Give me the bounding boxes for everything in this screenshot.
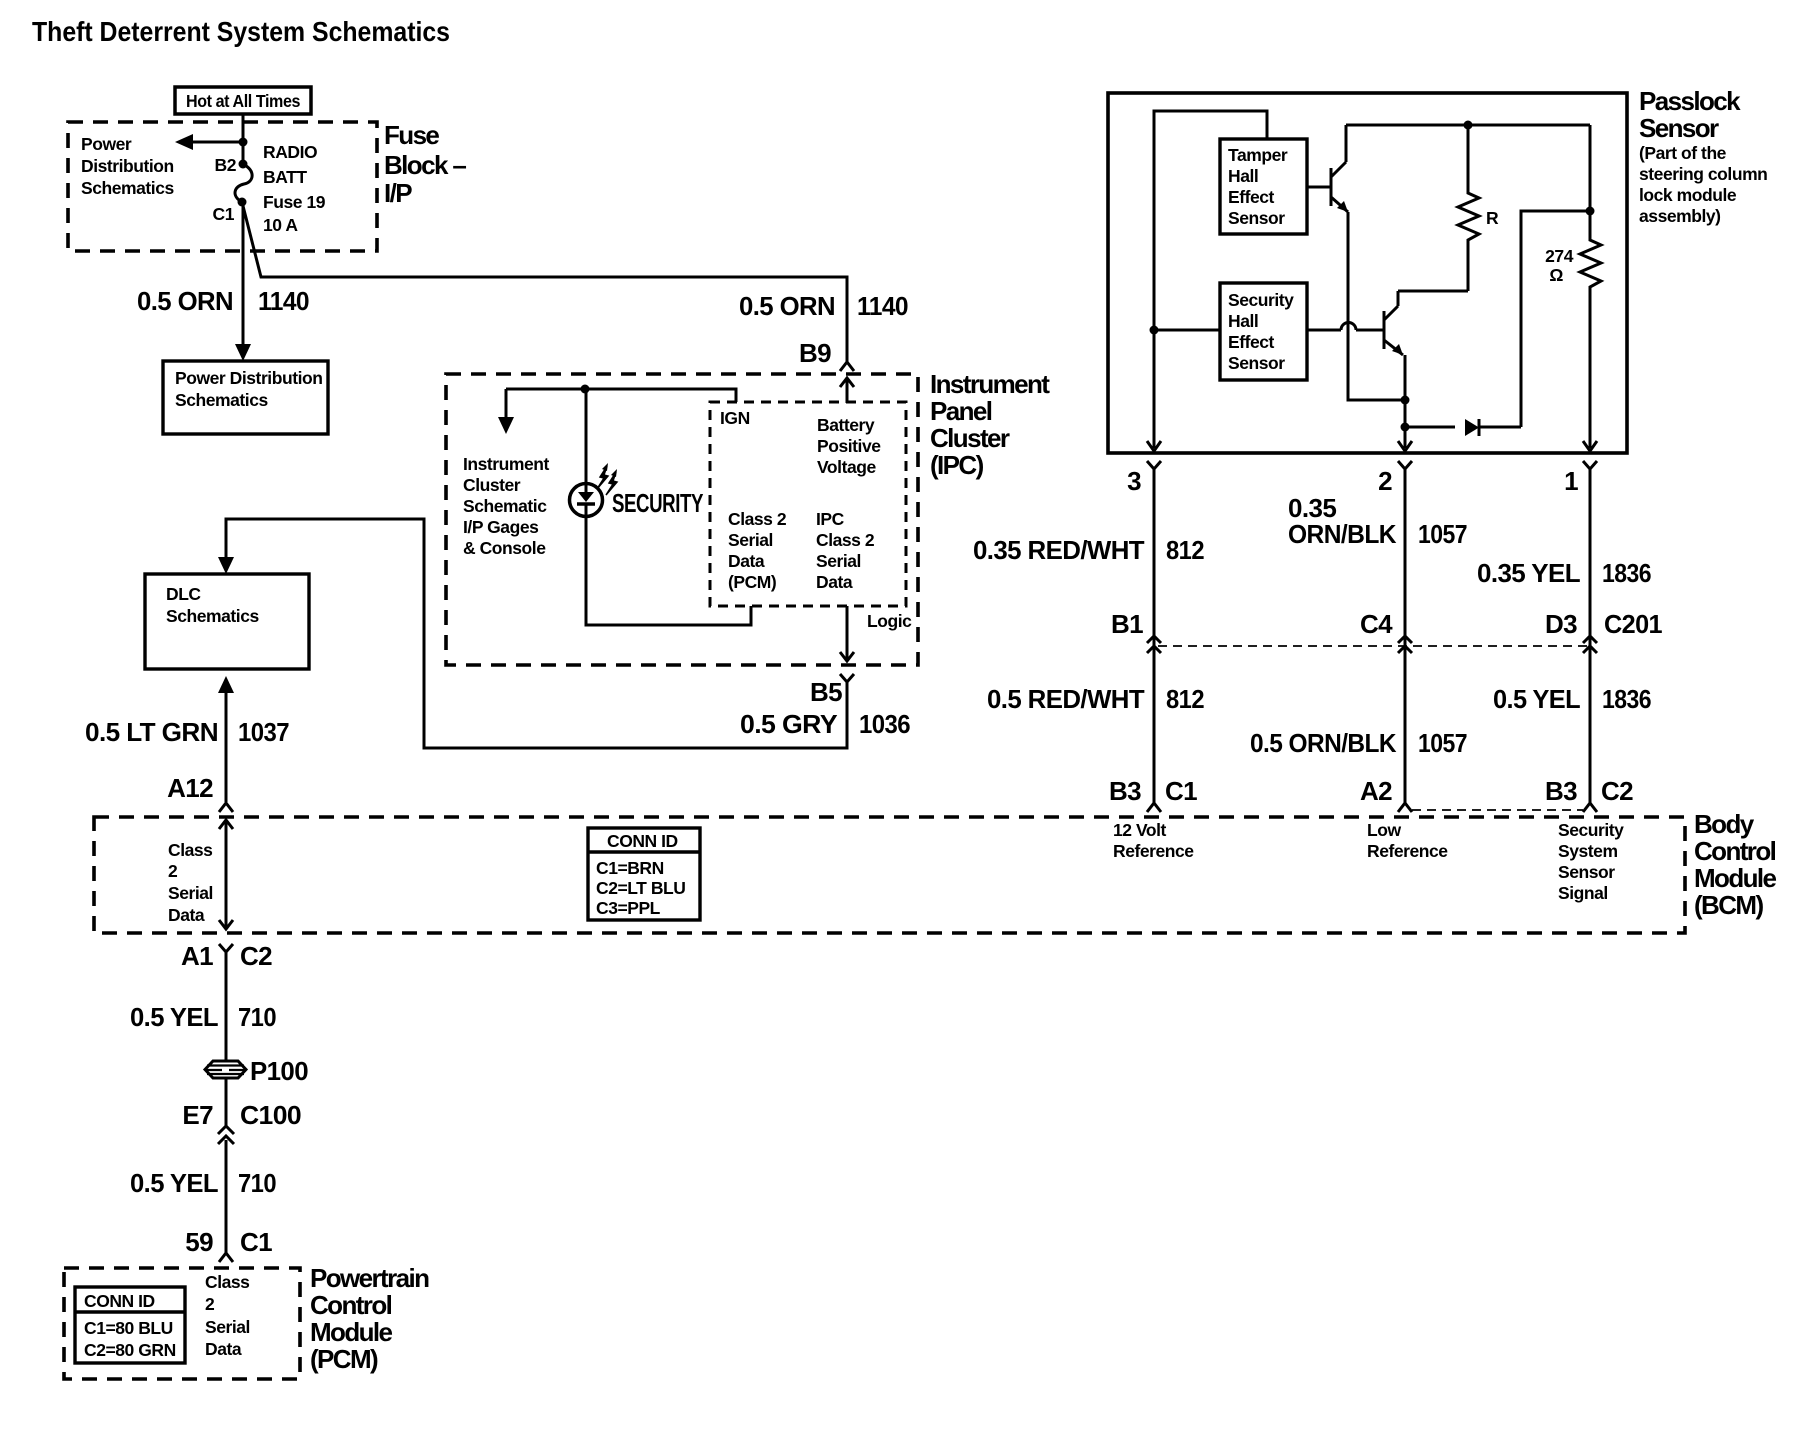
wire label 0.5 ORN 1140 (right) xyxy=(739,291,908,321)
svg-text:0.5 YEL: 0.5 YEL xyxy=(1493,684,1581,714)
svg-text:Serial: Serial xyxy=(168,883,213,903)
svg-text:Data: Data xyxy=(205,1339,242,1359)
fuse block dashed box xyxy=(68,122,377,251)
security indicator lamp xyxy=(570,463,618,517)
12 Volt Reference label xyxy=(1113,820,1194,861)
svg-text:1057: 1057 xyxy=(1418,519,1467,549)
diode D1 xyxy=(1405,419,1521,436)
svg-text:I/P: I/P xyxy=(384,178,412,208)
wire C1 down to Power Distribution box xyxy=(235,202,251,361)
Powertrain Control Module dashed box xyxy=(64,1268,300,1379)
wire from security lamp to logic box xyxy=(586,516,751,625)
svg-text:C1=BRN: C1=BRN xyxy=(596,858,664,878)
svg-text:Control: Control xyxy=(310,1290,392,1320)
connector C201 chevrons pin C4 xyxy=(1398,636,1412,653)
svg-text:Sensor: Sensor xyxy=(1228,208,1285,228)
svg-text:C1: C1 xyxy=(1165,776,1197,806)
svg-text:2: 2 xyxy=(1378,466,1392,496)
node junction emitter join xyxy=(1401,396,1410,405)
svg-text:1037: 1037 xyxy=(238,717,289,747)
wire B5 to DLC xyxy=(218,519,847,748)
connector B9 xyxy=(799,338,854,371)
svg-text:DLC: DLC xyxy=(166,584,201,604)
svg-text:(PCM): (PCM) xyxy=(728,572,776,592)
connector A12 xyxy=(167,773,233,812)
wire label 0.5 RED/WHT 812 xyxy=(987,684,1204,714)
resistor 274 ohm xyxy=(1545,211,1601,448)
BCM pin A2 connector xyxy=(1360,776,1412,812)
svg-text:1: 1 xyxy=(1564,466,1578,496)
svg-text:Sensor: Sensor xyxy=(1558,862,1615,882)
svg-text:R: R xyxy=(1486,208,1499,228)
arrow pin1 at box bottom xyxy=(1583,441,1597,451)
svg-text:274: 274 xyxy=(1545,246,1574,266)
svg-text:Control: Control xyxy=(1694,836,1776,866)
svg-text:& Console: & Console xyxy=(463,538,546,558)
svg-text:Power Distribution: Power Distribution xyxy=(175,368,322,388)
wire Q1 collector up to top rail xyxy=(1345,125,1348,162)
arrow up inside IPC at B9 xyxy=(840,378,854,403)
wire Q2 emitter down pin2 xyxy=(1404,355,1407,448)
svg-text:Schematics: Schematics xyxy=(175,390,268,410)
svg-text:Tamper: Tamper xyxy=(1228,145,1288,165)
svg-text:Block –: Block – xyxy=(384,150,466,180)
svg-text:0.5 YEL: 0.5 YEL xyxy=(130,1002,219,1032)
svg-text:Positive: Positive xyxy=(817,436,881,456)
svg-text:0.5 LT GRN: 0.5 LT GRN xyxy=(85,717,218,747)
pin 3 connector xyxy=(1127,461,1161,496)
BCM connector C2 dashed link xyxy=(1412,809,1583,811)
Passlock Sensor label xyxy=(1639,86,1767,226)
svg-text:0.5 RED/WHT: 0.5 RED/WHT xyxy=(987,684,1145,714)
svg-text:(PCM): (PCM) xyxy=(310,1344,378,1374)
wire label 0.5 ORN 1140 (left) xyxy=(137,286,309,316)
svg-text:Serial: Serial xyxy=(728,530,773,550)
BCM pin A1/C2 connector xyxy=(181,941,272,971)
svg-text:ORN/BLK: ORN/BLK xyxy=(1288,519,1397,549)
IPC Class 2 Serial Data label xyxy=(816,509,875,592)
Body Control Module dashed box xyxy=(94,817,1685,933)
svg-text:1836: 1836 xyxy=(1602,684,1651,714)
BCM pin B3/C2 connector xyxy=(1545,776,1633,812)
svg-text:0.5 YEL: 0.5 YEL xyxy=(130,1168,219,1198)
svg-text:Theft Deterrent System Schemat: Theft Deterrent System Schematics xyxy=(32,16,450,47)
svg-text:Security: Security xyxy=(1228,290,1294,310)
wire label 0.5 YEL 1836 xyxy=(1493,684,1651,714)
svg-text:BATT: BATT xyxy=(263,167,307,187)
wire label 0.5 LT GRN 1037 xyxy=(85,717,289,747)
svg-text:Data: Data xyxy=(168,905,205,925)
svg-text:1036: 1036 xyxy=(859,709,910,739)
pin 2 connector xyxy=(1378,461,1412,496)
svg-text:B2: B2 xyxy=(215,155,237,175)
Power Distribution Schematics box xyxy=(163,361,328,434)
svg-text:Fuse 19: Fuse 19 xyxy=(263,192,326,212)
svg-text:Body: Body xyxy=(1694,809,1755,839)
transistor Q1 tamper xyxy=(1307,162,1348,212)
svg-text:C3=PPL: C3=PPL xyxy=(596,898,661,918)
CONN ID table (PCM) xyxy=(75,1287,185,1363)
svg-text:B9: B9 xyxy=(799,338,831,368)
svg-text:1140: 1140 xyxy=(258,286,309,316)
Power Distribution Schematics reference text xyxy=(81,134,174,198)
svg-text:812: 812 xyxy=(1166,535,1204,565)
node C1 xyxy=(213,198,247,225)
wire Q2 collector up xyxy=(1397,291,1400,306)
svg-text:C2=80 GRN: C2=80 GRN xyxy=(84,1340,176,1360)
svg-text:RADIO: RADIO xyxy=(263,142,317,162)
Class 2 Serial Data (PCM) label xyxy=(728,509,787,592)
svg-text:Ω: Ω xyxy=(1549,265,1563,285)
svg-text:C100: C100 xyxy=(240,1100,301,1130)
svg-text:Data: Data xyxy=(728,551,765,571)
BCM class 2 serial data double arrow xyxy=(219,820,233,929)
connector C201 chevrons pin B1 xyxy=(1147,636,1161,653)
connector C100 xyxy=(182,1100,301,1144)
svg-text:2: 2 xyxy=(168,861,178,881)
wire A1 to P100 xyxy=(225,952,228,1061)
fuse F19 RADIO BATT 10A xyxy=(235,142,326,235)
svg-text:Reference: Reference xyxy=(1113,841,1194,861)
top rail wire xyxy=(1346,124,1590,127)
Hot at All Times box xyxy=(175,87,311,114)
svg-text:A2: A2 xyxy=(1360,776,1392,806)
svg-text:Instrument: Instrument xyxy=(930,369,1050,399)
wire top rail corner down xyxy=(1589,125,1592,211)
svg-text:A12: A12 xyxy=(167,773,213,803)
svg-text:Security: Security xyxy=(1558,820,1624,840)
connector B5 xyxy=(810,674,854,707)
wire Q1 emitter down and across xyxy=(1348,212,1405,400)
wire C100 to PCM pin 59 xyxy=(225,1140,228,1253)
Security System Sensor Signal label xyxy=(1558,820,1624,903)
svg-text:(BCM): (BCM) xyxy=(1694,890,1763,920)
Class 2 Serial Data label (BCM) xyxy=(168,840,213,925)
wire R bottom to Q2 collector xyxy=(1398,290,1468,293)
svg-text:Sensor: Sensor xyxy=(1639,113,1719,143)
svg-text:C1: C1 xyxy=(213,204,235,224)
svg-text:Low: Low xyxy=(1367,820,1401,840)
node junction at fuse feed xyxy=(239,138,248,147)
wire A12 up to DLC xyxy=(218,676,234,802)
wire pin3 vertical and top link to tamper sensor xyxy=(1154,111,1267,448)
node junction top rail at R xyxy=(1464,121,1473,130)
wire diode to 274 ohm top xyxy=(1521,211,1590,427)
svg-text:0.5 ORN/BLK: 0.5 ORN/BLK xyxy=(1250,728,1397,758)
svg-text:Effect: Effect xyxy=(1228,332,1275,352)
Instrument Cluster Schematic reference text xyxy=(463,454,550,558)
svg-text:C2=LT BLU: C2=LT BLU xyxy=(596,878,685,898)
wire C1 to IPC B9 xyxy=(242,202,847,362)
wire arrow to Power Distribution Schematics xyxy=(175,134,243,150)
svg-text:E7: E7 xyxy=(182,1100,213,1130)
svg-text:B5: B5 xyxy=(810,677,842,707)
node junction at security lamp feed xyxy=(581,385,590,394)
wire pin2 to BCM xyxy=(1404,469,1407,803)
svg-text:Hall: Hall xyxy=(1228,311,1258,331)
svg-text:Serial: Serial xyxy=(816,551,861,571)
wire P100 to C100 xyxy=(225,1078,228,1126)
svg-text:710: 710 xyxy=(238,1002,276,1032)
svg-text:Module: Module xyxy=(310,1317,393,1347)
Instrument Panel Cluster dashed box xyxy=(446,374,918,665)
svg-text:C1=80 BLU: C1=80 BLU xyxy=(84,1318,173,1338)
wire label 0.35 ORN/BLK 1057 xyxy=(1288,493,1467,549)
svg-text:0.35 RED/WHT: 0.35 RED/WHT xyxy=(973,535,1145,565)
svg-text:Passlock: Passlock xyxy=(1639,86,1741,116)
wire label 0.35 RED/WHT 812 xyxy=(973,535,1204,565)
svg-text:10 A: 10 A xyxy=(263,215,298,235)
Body Control Module (BCM) label xyxy=(1694,809,1777,920)
svg-text:2: 2 xyxy=(205,1294,215,1314)
Tamper Hall Effect Sensor box xyxy=(1220,139,1307,234)
wire label 0.5 YEL 710 (upper) xyxy=(130,1002,276,1032)
CONN ID table (BCM) xyxy=(588,828,700,920)
svg-text:SECURITY: SECURITY xyxy=(612,488,703,518)
svg-text:Class: Class xyxy=(205,1272,250,1292)
svg-text:Sensor: Sensor xyxy=(1228,353,1285,373)
wire pin1 to BCM xyxy=(1589,469,1592,803)
svg-text:Class 2: Class 2 xyxy=(816,530,875,550)
Security Hall Effect Sensor box xyxy=(1220,283,1307,380)
svg-text:P100: P100 xyxy=(250,1056,308,1086)
svg-text:Battery: Battery xyxy=(817,415,875,435)
svg-text:Serial: Serial xyxy=(205,1317,250,1337)
svg-text:12 Volt: 12 Volt xyxy=(1113,820,1167,840)
wire label 0.5 ORN/BLK 1057 xyxy=(1250,728,1467,758)
svg-text:C1: C1 xyxy=(240,1227,272,1257)
node B2 xyxy=(215,155,248,175)
svg-text:Schematics: Schematics xyxy=(166,606,259,626)
svg-text:Hall: Hall xyxy=(1228,166,1258,186)
svg-text:assembly): assembly) xyxy=(1639,206,1721,226)
svg-text:IGN: IGN xyxy=(720,408,750,428)
PCM pin 59/C1 connector xyxy=(185,1227,272,1262)
svg-text:C2: C2 xyxy=(1601,776,1633,806)
wire label 0.35 YEL 1836 xyxy=(1477,558,1651,588)
svg-text:Schematics: Schematics xyxy=(81,178,174,198)
svg-text:Signal: Signal xyxy=(1558,883,1608,903)
svg-text:Class 2: Class 2 xyxy=(728,509,787,529)
svg-text:(Part of the: (Part of the xyxy=(1639,143,1727,163)
svg-text:Panel: Panel xyxy=(930,396,992,426)
svg-text:Distribution: Distribution xyxy=(81,156,174,176)
svg-text:B3: B3 xyxy=(1109,776,1141,806)
svg-text:B1: B1 xyxy=(1111,609,1143,639)
transistor Q2 security xyxy=(1307,306,1403,355)
svg-text:(IPC): (IPC) xyxy=(930,450,984,480)
svg-text:Logic: Logic xyxy=(867,611,912,631)
wire label 0.5 GRY 1036 xyxy=(740,709,910,739)
IPC logic inner dashed box xyxy=(710,402,906,606)
svg-text:Instrument: Instrument xyxy=(463,454,550,474)
svg-text:CONN ID: CONN ID xyxy=(607,831,678,851)
arrow pin2 at box bottom xyxy=(1398,441,1412,451)
svg-text:0.5 ORN: 0.5 ORN xyxy=(739,291,835,321)
svg-text:710: 710 xyxy=(238,1168,276,1198)
wire junction to security sensor xyxy=(1154,329,1220,332)
Passlock Sensor box xyxy=(1108,93,1627,453)
svg-text:steering column: steering column xyxy=(1639,164,1767,184)
svg-text:0.5 GRY: 0.5 GRY xyxy=(740,709,837,739)
arrow down from logic box to B5 xyxy=(840,606,854,661)
svg-text:812: 812 xyxy=(1166,684,1204,714)
svg-text:lock module: lock module xyxy=(1639,185,1737,205)
svg-text:CONN ID: CONN ID xyxy=(84,1291,155,1311)
svg-text:Class: Class xyxy=(168,840,213,860)
Class 2 Serial Data label (PCM) xyxy=(205,1272,250,1359)
svg-text:59: 59 xyxy=(185,1227,213,1257)
svg-text:1836: 1836 xyxy=(1602,558,1651,588)
BCM pin B3/C1 connector xyxy=(1109,776,1197,812)
wire IGN feed xyxy=(506,389,736,402)
svg-text:System: System xyxy=(1558,841,1618,861)
node junction on pin3 wire xyxy=(1150,326,1159,335)
Battery Positive Voltage label xyxy=(817,415,881,477)
arrow down to instrument cluster schematic xyxy=(498,389,514,434)
svg-text:I/P Gages: I/P Gages xyxy=(463,517,539,537)
svg-text:0.5 ORN: 0.5 ORN xyxy=(137,286,233,316)
svg-text:C201: C201 xyxy=(1604,609,1662,639)
svg-text:Powertrain: Powertrain xyxy=(310,1263,429,1293)
wire from junction down to security lamp xyxy=(585,389,588,484)
svg-text:D3: D3 xyxy=(1545,609,1577,639)
svg-text:Effect: Effect xyxy=(1228,187,1275,207)
svg-text:IPC: IPC xyxy=(816,509,845,529)
Powertrain Control Module (PCM) label xyxy=(310,1263,429,1374)
svg-text:Cluster: Cluster xyxy=(930,423,1010,453)
DLC Schematics box xyxy=(145,574,309,669)
svg-text:Module: Module xyxy=(1694,863,1777,893)
splice P100 xyxy=(205,1056,308,1086)
svg-text:0.35 YEL: 0.35 YEL xyxy=(1477,558,1581,588)
Fuse Block I/P label xyxy=(384,120,466,208)
Low Reference label xyxy=(1367,820,1448,861)
connector C201 chevrons pin D3 xyxy=(1583,636,1597,653)
Instrument Panel Cluster (IPC) label xyxy=(930,369,1050,480)
svg-text:Fuse: Fuse xyxy=(384,120,439,150)
wire pin3 to BCM xyxy=(1153,469,1156,803)
svg-text:B3: B3 xyxy=(1545,776,1577,806)
svg-text:Schematic: Schematic xyxy=(463,496,547,516)
svg-text:3: 3 xyxy=(1127,466,1141,496)
pin 1 connector xyxy=(1564,461,1597,496)
svg-text:Reference: Reference xyxy=(1367,841,1448,861)
svg-text:Data: Data xyxy=(816,572,853,592)
arrow pin3 at box bottom xyxy=(1147,441,1161,451)
wire label 0.5 YEL 710 (lower) xyxy=(130,1168,276,1198)
svg-text:1140: 1140 xyxy=(857,291,908,321)
svg-text:A1: A1 xyxy=(181,941,213,971)
resistor R xyxy=(1458,125,1499,291)
svg-text:1057: 1057 xyxy=(1418,728,1467,758)
svg-text:C2: C2 xyxy=(240,941,272,971)
connector C201 dashed line xyxy=(1158,645,1590,647)
svg-text:Hot at All Times: Hot at All Times xyxy=(186,91,301,111)
svg-text:Power: Power xyxy=(81,134,132,154)
svg-text:C4: C4 xyxy=(1360,609,1393,639)
node junction at 274 ohm top xyxy=(1586,207,1595,216)
node junction diode tap xyxy=(1401,423,1410,432)
wire from Hot at All Times down xyxy=(242,114,245,164)
svg-text:Voltage: Voltage xyxy=(817,457,876,477)
svg-text:Cluster: Cluster xyxy=(463,475,521,495)
